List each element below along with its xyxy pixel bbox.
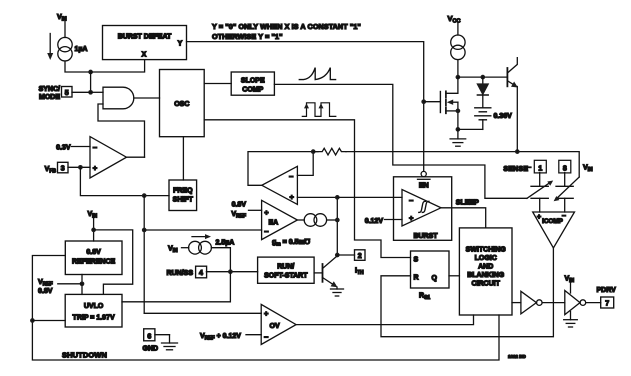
- ground (soft-start emitter): [331, 289, 344, 296]
- pin 2 ITH: [337, 250, 365, 276]
- svg-text:6: 6: [147, 333, 151, 340]
- svg-text:LOGIC: LOGIC: [475, 255, 497, 262]
- svg-text:VIN: VIN: [88, 211, 98, 220]
- svg-text:RS1: RS1: [419, 293, 430, 302]
- reference box 0.8V: [65, 241, 122, 275]
- svg-text:gm = 0.5m℧: gm = 0.5m℧: [272, 238, 311, 248]
- label VREF + 0.12V: [200, 333, 261, 342]
- comparator 0.3V (burst threshold): [56, 137, 144, 178]
- oscillator OSC: [160, 70, 205, 137]
- node VIN junction: [91, 228, 96, 233]
- svg-text:SENSE−: SENSE−: [503, 165, 531, 173]
- svg-text:−: −: [264, 227, 269, 236]
- svg-text:TRIP = 1.97V: TRIP = 1.97V: [73, 315, 115, 322]
- svg-text:R: R: [414, 274, 419, 281]
- label VREF 0.8V: [38, 279, 82, 295]
- node VFB junction: [78, 165, 83, 170]
- svg-text:COMP: COMP: [242, 87, 263, 94]
- svg-text:2: 2: [358, 253, 362, 260]
- node VCC: [448, 14, 461, 35]
- current source I1 1uA: [47, 34, 87, 62]
- wire SLEEP output: [441, 208, 486, 228]
- svg-text:4: 4: [199, 270, 203, 277]
- svg-text:GND: GND: [143, 346, 159, 353]
- svg-text:VREF: VREF: [38, 279, 53, 288]
- wire Y output to EN and gate: [187, 42, 424, 172]
- svg-text:5: 5: [65, 90, 69, 97]
- wire shutdown net: [32, 256, 499, 361]
- diode D1: [477, 77, 488, 108]
- svg-text:−: −: [409, 196, 414, 205]
- svg-text:VREF + 0.12V: VREF + 0.12V: [200, 333, 241, 342]
- comparator BURST: [394, 177, 452, 241]
- svg-text:+: +: [409, 214, 414, 223]
- and-gate G1: [91, 87, 160, 157]
- svg-text:OSC: OSC: [174, 101, 189, 108]
- svg-text:3: 3: [61, 166, 65, 173]
- svg-text:0.8V: 0.8V: [38, 288, 53, 295]
- pin 8 VIN: [559, 160, 593, 186]
- svg-text:1: 1: [538, 165, 542, 172]
- resistor R (ITH to comparator): [313, 148, 346, 155]
- ground (PDRV driver): [564, 312, 578, 328]
- wire VFB to EA minus: [144, 229, 261, 231]
- label 0.12V (burst threshold): [365, 218, 402, 225]
- svg-text:UVLO: UVLO: [84, 303, 104, 310]
- ground (pin 6): [162, 335, 178, 350]
- svg-text:0.12V: 0.12V: [365, 218, 384, 225]
- svg-text:EA: EA: [269, 220, 279, 227]
- switching-logic box: [459, 228, 512, 315]
- slope-comp box: [231, 72, 274, 95]
- wire Q to switching logic: [449, 275, 459, 277]
- transistor Q3 (clamp emitter follower): [507, 58, 518, 152]
- comparator ICOMP: [533, 212, 575, 248]
- run-soft-start box: [258, 257, 315, 283]
- svg-text:RUN/: RUN/: [277, 263, 294, 270]
- transistor Q1 (soft-start pulldown): [314, 256, 337, 289]
- svg-text:8: 8: [563, 165, 567, 172]
- svg-text:RUN/SS: RUN/SS: [167, 270, 194, 277]
- svg-text:2.5µA: 2.5µA: [216, 240, 235, 247]
- op-amp EA (error amplifier): [262, 200, 298, 239]
- svg-text:BLANKING: BLANKING: [467, 272, 504, 279]
- wire slope-comp to ICOMP plus (via level shift arrow): [274, 84, 527, 198]
- svg-text:OV: OV: [270, 323, 280, 330]
- svg-text:VIN: VIN: [565, 276, 575, 285]
- svg-text:VFB: VFB: [45, 166, 57, 175]
- wire UVLO to RUN/SS node: [122, 272, 230, 302]
- svg-text:SHUTDOWN: SHUTDOWN: [62, 351, 107, 360]
- svg-text:0.8V: 0.8V: [86, 249, 101, 256]
- pin 3 VFB: [45, 162, 90, 174]
- svg-text:SWITCHING: SWITCHING: [466, 247, 507, 254]
- wire OV output to switching logic: [296, 315, 473, 325]
- svg-text:−: −: [93, 143, 98, 152]
- wire ITH node vertical: [336, 197, 338, 255]
- current mirror M1 (gm output): [297, 214, 337, 227]
- pin 7 PDRV: [597, 287, 617, 308]
- svg-text:SLOPE: SLOPE: [241, 78, 265, 85]
- node Y-gate junction: [421, 99, 426, 104]
- current source I3 (VCC bias): [451, 35, 465, 77]
- wire source node to battery: [458, 128, 483, 130]
- svg-text:0.8V: 0.8V: [232, 202, 247, 209]
- svg-text:CIRCUIT: CIRCUIT: [472, 281, 501, 288]
- wire gate branch: [424, 101, 441, 103]
- svg-text:OTHERWISE Y = "1": OTHERWISE Y = "1": [212, 32, 283, 41]
- node VIN (reference supply): [88, 211, 98, 241]
- node VIN (top-left supply): [57, 14, 67, 38]
- svg-text:Y = "0" ONLY WHEN X IS A CONST: Y = "0" ONLY WHEN X IS A CONSTANT "1": [212, 22, 361, 31]
- wire source to X node: [65, 61, 91, 72]
- svg-text:SOFT-START: SOFT-START: [264, 272, 308, 279]
- node buffer feedback junction: [311, 149, 316, 154]
- wire reference to UVLO: [81, 275, 83, 295]
- capacitor level-shift C1 (SENSE side): [527, 181, 553, 213]
- wire X node to AND: [90, 72, 92, 92]
- wire OSC to slope-comp: [204, 83, 231, 85]
- svg-text:PDRV: PDRV: [597, 287, 617, 294]
- svg-text:X: X: [142, 52, 147, 59]
- svg-text:1622 BD: 1622 BD: [508, 354, 527, 359]
- svg-text:+: +: [290, 193, 295, 202]
- node X junction: [88, 70, 93, 75]
- battery 0.36V: [475, 108, 512, 130]
- wire OSC to freq-shift: [182, 137, 184, 180]
- comparator OV (overvoltage): [261, 304, 296, 344]
- svg-text:1µA: 1µA: [75, 46, 88, 53]
- burst-defeat box: [103, 26, 187, 60]
- node VREF tap: [80, 281, 85, 286]
- svg-text:S: S: [414, 257, 419, 264]
- op-amp A2 (ITH buffer, points left): [248, 152, 337, 205]
- waveform sawtooth: [299, 68, 335, 80]
- current source I2 2.5uA: [168, 234, 234, 272]
- svg-text:Y: Y: [178, 41, 183, 48]
- pin 5 SYNC/MODE: [39, 86, 91, 101]
- svg-text:0.3V: 0.3V: [56, 145, 71, 152]
- pin 4 RUN/SS: [167, 266, 258, 278]
- svg-text:VIN: VIN: [583, 165, 593, 174]
- latch RS1: [411, 251, 450, 301]
- ground (MOSFET source): [450, 129, 466, 146]
- wire ICOMP output to latch R: [381, 248, 553, 337]
- svg-text:−: −: [289, 172, 294, 181]
- node RUN/SS junction: [228, 269, 233, 274]
- wire VFB to OV plus: [144, 312, 261, 314]
- svg-text:SLEEP: SLEEP: [456, 200, 479, 207]
- svg-text:AND: AND: [478, 264, 493, 271]
- wire threshold line to VIN corner: [346, 152, 579, 177]
- svg-text:0.36V: 0.36V: [494, 113, 513, 120]
- svg-text:+: +: [264, 208, 269, 217]
- svg-text:+: +: [93, 163, 98, 172]
- svg-text:MODE: MODE: [39, 94, 60, 101]
- freq-shift box: [169, 180, 197, 211]
- transistor M1 (burst defeat MOSFET): [440, 77, 460, 129]
- node MOSFET source junction: [456, 127, 461, 132]
- svg-text:SHIFT: SHIFT: [173, 197, 194, 204]
- svg-text:ICOMP: ICOMP: [542, 218, 563, 225]
- svg-text:SYNC/: SYNC/: [39, 86, 60, 93]
- note Y logic text: [212, 22, 361, 41]
- uvlo box: [65, 294, 122, 327]
- pin 6 GND: [143, 329, 170, 353]
- svg-text:BURST DEFEAT: BURST DEFEAT: [118, 34, 172, 41]
- svg-text:REFERENCE: REFERENCE: [72, 259, 116, 266]
- node bias junction: [456, 75, 461, 80]
- svg-text:+: +: [537, 214, 541, 221]
- wire VIN to UVLO: [94, 230, 133, 295]
- wire ITH node to BURST minus: [337, 196, 402, 198]
- wire OSC pulse to latch S: [204, 120, 410, 258]
- svg-text:ITH: ITH: [355, 268, 364, 277]
- pin 1 SENSE-: [503, 160, 546, 186]
- label 0.8V VREF (EA input): [231, 202, 261, 220]
- inverter U3 (PDRV driver): [565, 276, 601, 315]
- node EN bubble: [421, 171, 426, 176]
- waveform pulses: [302, 103, 336, 117]
- node emitter junction: [515, 149, 520, 154]
- wire X output: [91, 60, 145, 72]
- wire VFB down to EA and OV: [143, 196, 145, 314]
- capacitor level-shift C2 (VIN side): [554, 177, 580, 212]
- wire bias node to Q3 base: [458, 76, 508, 78]
- svg-text:−: −: [264, 333, 269, 342]
- svg-text:BURST: BURST: [413, 233, 438, 240]
- svg-text:FREQ: FREQ: [173, 188, 193, 195]
- svg-text:7: 7: [605, 301, 609, 308]
- inverter U2: [512, 291, 565, 314]
- svg-text:+: +: [264, 309, 269, 318]
- svg-text:EN: EN: [419, 183, 429, 190]
- wire uvlo left input: [32, 320, 65, 322]
- wire VFB to freq-shift: [80, 167, 169, 195]
- svg-text:VREF: VREF: [231, 211, 246, 220]
- svg-text:Q: Q: [432, 275, 438, 282]
- svg-text:VIN: VIN: [168, 246, 178, 255]
